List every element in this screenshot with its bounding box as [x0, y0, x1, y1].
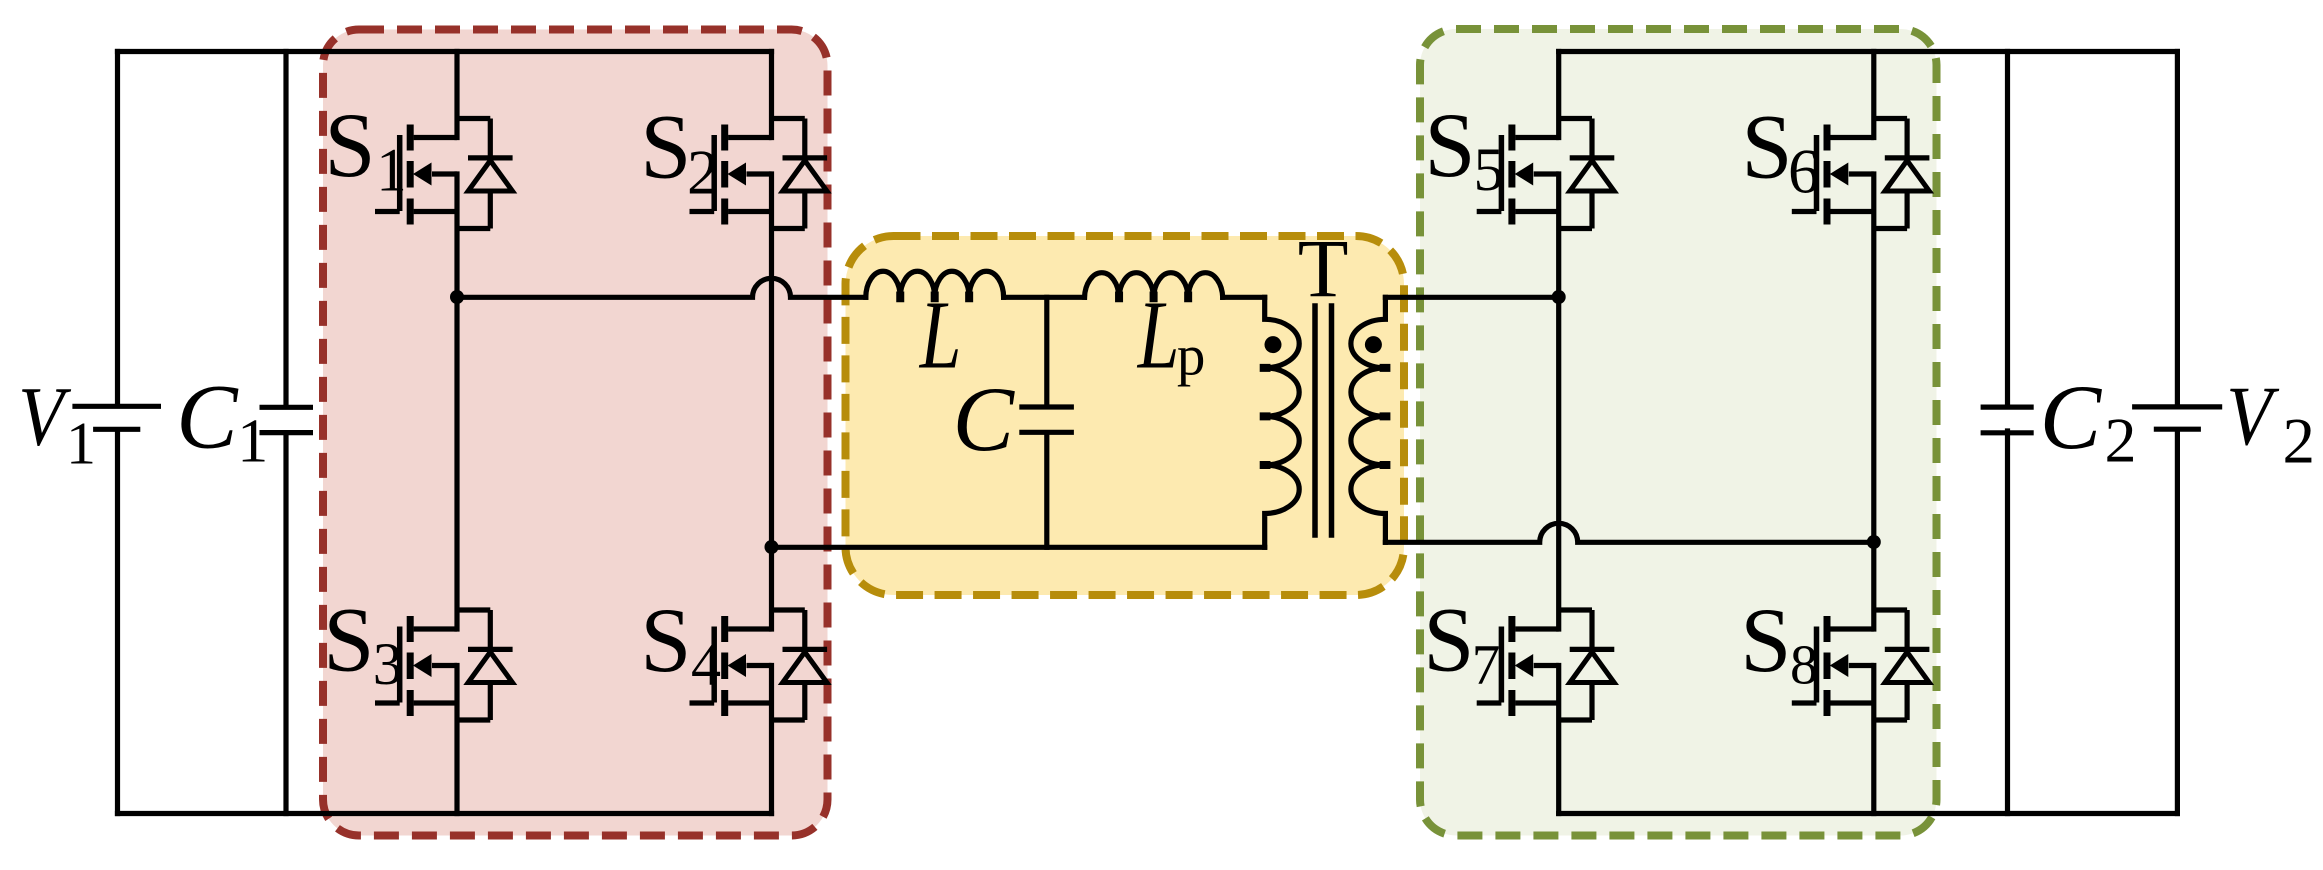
- wire: S1/S3 leg drain segment S1: [454, 52, 459, 138]
- transformer secondary polarity dot: [1365, 336, 1382, 353]
- svg-text:2: 2: [687, 137, 719, 208]
- wire: S5/S7 leg bottom segment: [1556, 666, 1561, 814]
- wire: C2 branch upper: [2005, 52, 2010, 406]
- transformer T core lines: [1315, 306, 1332, 535]
- wire: S5/S7 leg drain segment S5: [1556, 52, 1561, 138]
- wire: S2/S4 leg middle segment: [769, 174, 774, 629]
- svg-text:5: 5: [1474, 137, 1505, 204]
- inductor L: [866, 271, 1004, 297]
- wire: V1 branch upper: [115, 52, 120, 405]
- capacitor C2 top plate: [1981, 405, 2034, 410]
- MOSFET switch S5 with body diode: [1477, 119, 1615, 229]
- MOSFET switch S4 with body diode: [690, 610, 828, 720]
- svg-text:p: p: [1177, 325, 1206, 388]
- svg-text:2: 2: [2283, 406, 2316, 478]
- svg-text:1: 1: [376, 137, 407, 204]
- svg-text:L: L: [1136, 282, 1179, 389]
- svg-text:S: S: [324, 94, 375, 196]
- svg-text:2: 2: [2105, 405, 2137, 476]
- LC filter and transformer region (yellow dashed box): [846, 236, 1405, 595]
- wire: top rail left section: [118, 49, 772, 54]
- wire: lower mid rail from node B to transformer primary: [772, 545, 1265, 550]
- wire: C2 branch lower: [2005, 431, 2010, 814]
- svg-text:V: V: [18, 370, 72, 464]
- svg-text:C: C: [953, 368, 1016, 470]
- wire: C branch upper: [1044, 297, 1049, 404]
- wire: bottom rail right section: [1559, 811, 2178, 816]
- svg-text:8: 8: [1790, 635, 1818, 697]
- voltage source V2 short plate: [2154, 427, 2201, 432]
- svg-text:1: 1: [237, 408, 268, 476]
- voltage source V1 long plate: [72, 404, 161, 409]
- svg-text:7: 7: [1472, 634, 1501, 697]
- wire: S2/S4 leg drain segment S2: [769, 52, 774, 138]
- capacitor C1 bottom plate: [260, 430, 314, 435]
- wire: S6/S8 leg bottom segment: [1871, 666, 1876, 814]
- capacitor C2 bottom plate: [1981, 430, 2034, 435]
- wire: secondary bottom with hop over S5/S7 leg to node D: [1385, 523, 1873, 542]
- wire: V2 branch upper: [2175, 52, 2180, 406]
- MOSFET switch S6 with body diode: [1792, 119, 1930, 229]
- wire: S6/S8 leg drain segment S6: [1871, 52, 1876, 138]
- node A junction dot (S1/S3 midpoint): [450, 290, 464, 304]
- wire: C1 branch lower: [283, 435, 288, 814]
- wire: S1/S3 leg middle segment: [454, 174, 459, 629]
- wire: top rail right section: [1559, 49, 2178, 54]
- capacitor C top plate: [1019, 404, 1074, 409]
- voltage source V1 short plate: [93, 427, 140, 432]
- svg-text:V: V: [2226, 369, 2280, 463]
- wire: S5/S7 leg middle segment: [1556, 174, 1561, 629]
- wire: C1 branch upper: [283, 52, 288, 406]
- wire: bottom rail left section: [118, 811, 772, 816]
- svg-text:S: S: [1740, 589, 1791, 691]
- transformer T secondary winding: [1351, 297, 1386, 542]
- MOSFET switch S1 with body diode: [375, 119, 513, 229]
- svg-text:T: T: [1298, 222, 1349, 314]
- svg-text:C: C: [2040, 366, 2103, 468]
- svg-text:C: C: [176, 366, 239, 468]
- wire: mid rail from node A with hop over S2/S4 leg: [457, 278, 866, 297]
- voltage source V2 long plate: [2132, 404, 2222, 409]
- svg-text:S: S: [1741, 96, 1792, 198]
- svg-text:S: S: [640, 589, 691, 691]
- transformer T primary winding: [1265, 297, 1300, 547]
- node B junction dot (S2/S4 midpoint): [765, 540, 779, 554]
- wire: between L and Lp: [1004, 295, 1085, 300]
- svg-text:S: S: [1424, 94, 1475, 196]
- svg-text:4: 4: [691, 632, 721, 698]
- svg-text:1: 1: [66, 410, 96, 476]
- svg-text:S: S: [323, 588, 374, 690]
- wire: V2 branch lower: [2175, 431, 2180, 814]
- MOSFET switch S2 with body diode: [690, 119, 828, 229]
- wire: S6/S8 leg middle segment: [1871, 174, 1876, 629]
- wire: S1/S3 leg bottom segment: [454, 666, 459, 814]
- node C junction dot (S5/S7 midpoint): [1552, 290, 1566, 304]
- wire: S2/S4 leg bottom segment: [769, 666, 774, 814]
- capacitor C1 top plate: [260, 405, 314, 410]
- primary full-bridge region (red dashed box): [323, 30, 828, 836]
- wire: V1 branch lower: [115, 432, 120, 814]
- wire: secondary top to node C: [1385, 295, 1558, 300]
- secondary full-bridge region (green dashed box): [1420, 29, 1937, 836]
- wire: between Lp and transformer: [1223, 295, 1265, 300]
- transformer primary polarity dot: [1265, 336, 1282, 353]
- node D junction dot (S6/S8 midpoint): [1867, 535, 1881, 549]
- MOSFET switch S7 with body diode: [1477, 610, 1615, 720]
- wire: C branch lower: [1044, 435, 1049, 548]
- inductor Lp: [1085, 273, 1223, 298]
- capacitor C bottom plate: [1019, 430, 1074, 435]
- svg-text:3: 3: [373, 631, 403, 697]
- svg-text:6: 6: [1788, 136, 1820, 207]
- MOSFET switch S8 with body diode: [1792, 610, 1930, 720]
- MOSFET switch S3 with body diode: [375, 610, 513, 720]
- svg-text:S: S: [1423, 588, 1474, 690]
- svg-text:S: S: [640, 96, 691, 198]
